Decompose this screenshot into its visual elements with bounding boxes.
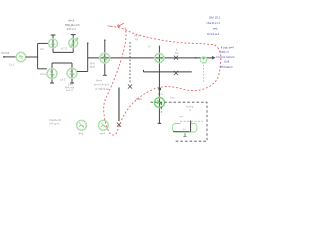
wire TL1 to left riser [26, 56, 38, 58]
wire lower branch [144, 70, 192, 72]
component R1 (green circle symbol, bright) [155, 54, 164, 63]
svg-text:Fresh+?4: Fresh+?4 [50, 119, 62, 122]
component MSUB icon (green circle) [77, 120, 87, 130]
svg-text:C/u: C/u [175, 52, 179, 55]
inductor L2 (green circle symbol) [67, 68, 77, 78]
svg-text:Rl: Rl [148, 46, 151, 49]
wire top stub to C1 [38, 42, 49, 44]
component C9 shunt green dashed lead [203, 59, 205, 84]
svg-text:4.7 Z: 4.7 Z [61, 47, 67, 50]
svg-text:3-C: 3-C [40, 48, 44, 51]
node on main line [195, 57, 197, 59]
wire left riser [37, 43, 39, 68]
svg-text:C4lk =/: C4lk =/ [220, 50, 230, 54]
wire bottom stub to C2 [38, 68, 47, 70]
wire lead of L2 with bottom pin cap [70, 63, 74, 83]
component TL1 (green circle symbol) [16, 52, 25, 61]
wire dashed vertical net [129, 42, 131, 84]
svg-text:3-C1: 3-C1 [40, 73, 46, 76]
svg-text:M=Jl: M=Jl [69, 20, 75, 23]
svg-text:D=19,a.4: D=19,a.4 [207, 32, 220, 36]
svg-text:DM 10.1: DM 10.1 [209, 15, 221, 19]
pin X at dashed net bottom [128, 84, 132, 88]
svg-text:Unit: Unit [224, 60, 230, 64]
svg-text:Oh base4: Oh base4 [220, 65, 233, 69]
node TL2 top [104, 39, 106, 41]
wire n top connecting C2 L2 [52, 62, 72, 64]
svg-text:Temperature: Temperature [216, 55, 235, 59]
capacitor C1 (green circle symbol) [49, 39, 58, 48]
wire lead of C2 with bottom pin cap [50, 63, 54, 83]
ground below L5 [183, 133, 186, 136]
inductor L1 (green circle symbol with tune arrow) [69, 38, 78, 48]
wire lead of TL2 shunt with pin caps [103, 40, 107, 75]
svg-text:a=L: a=L [213, 27, 218, 31]
svg-text:2-0c: 2-0c [170, 97, 175, 100]
wire lead of L1 with top pin cap [71, 35, 76, 53]
svg-text:P4,c: P4,c [134, 35, 140, 38]
component L5 green dashed line [180, 120, 203, 122]
annotation red arrow [118, 23, 125, 26]
wire port to TL1 [4, 56, 16, 58]
wire right riser with top tick [87, 43, 89, 72]
component gray bar TL3 [118, 88, 120, 122]
component C9 (small green circle) [201, 57, 207, 63]
svg-text:If you a=4: If you a=4 [221, 45, 235, 49]
svg-text:m1,-: m1,- [108, 24, 114, 28]
svg-text:,..: ,.. [175, 78, 177, 81]
wire C2L2 right to riser [77, 71, 88, 73]
wire main line right section [88, 57, 215, 59]
node junction dot on R1 lead [158, 88, 161, 91]
component TL2 (green circle symbol) [100, 53, 110, 63]
svg-text:4?7.2.1: 4?7.2.1 [67, 28, 76, 31]
label blue block lower [216, 45, 235, 69]
svg-text:L4 Z: L4 Z [60, 79, 66, 82]
wire L5 under line [173, 131, 190, 133]
svg-text:d:.?W=2,a4: d:.?W=2,a4 [95, 88, 109, 91]
svg-text:a=r=5.4=y=2: a=r=5.4=y=2 [94, 84, 110, 87]
svg-text:M=A: M=A [96, 79, 102, 82]
node port input dot [3, 56, 5, 58]
svg-text:=t=?: =t=? [100, 132, 106, 135]
svg-text:=4a,B.L=4: =4a,B.L=4 [206, 21, 220, 25]
svg-text:PRq,(B.L)=h: PRq,(B.L)=h [65, 24, 80, 27]
wire L5 inner vertical [190, 121, 192, 132]
svg-text:N? xy=1: N? xy=1 [50, 123, 60, 126]
label blue block upper [206, 15, 221, 36]
svg-text:3=2: 3=2 [79, 132, 84, 135]
svg-text:1-L,f: 1-L,f [9, 64, 15, 67]
dashed box subcircuit [151, 102, 208, 141]
svg-text:Term1: Term1 [1, 51, 10, 55]
pin X on lower branch [174, 71, 178, 75]
component SP icon (green circle) [98, 120, 108, 130]
svg-text:4a-r?2: 4a-r?2 [66, 89, 74, 92]
wire lead of C1 with top pin cap [51, 35, 56, 52]
node arrow main line end [212, 56, 216, 60]
annotation red dashed loop [104, 27, 221, 136]
component X1 (green circle symbol, brightest) [155, 98, 165, 108]
wire lead of R1 long vertical [158, 46, 162, 124]
node right riser top [87, 42, 89, 44]
capacitor C2 (green circle symbol) [47, 69, 57, 79]
pin X at gray bar bottom [117, 123, 121, 127]
svg-text:R=0: R=0 [90, 66, 96, 69]
svg-text:+=*: +=* [179, 115, 183, 118]
svg-text:3=*=: 3=*= [158, 93, 164, 96]
wire U bottom connecting C1 L1 [53, 51, 73, 53]
pin X on main line [174, 56, 178, 60]
component L5 coil outline [173, 124, 198, 133]
